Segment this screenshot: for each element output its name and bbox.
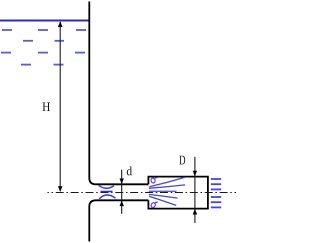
eddy curl top [150,178,157,184]
H arrowhead bottom [58,186,63,192]
jet lower boundary arc [99,195,115,199]
label d [127,167,132,176]
label H [43,102,51,111]
H dimension line [59,22,61,191]
outflow dashes [211,179,221,207]
H arrowhead top [58,21,63,27]
tank wall upper with orifice lip [89,2,148,185]
expansion fan line 2 [149,185,185,188]
eddy curl bottom [151,202,158,208]
d arrowhead upper [120,179,124,185]
centerline axis [48,192,237,194]
expansion fan line 1 [150,177,186,187]
D dimension line [194,157,196,223]
jet core line [101,191,113,193]
expansion fan line 3 [149,190,177,192]
expansion fan line 4 [149,194,178,198]
label D [179,156,185,165]
water dash row D [21,64,64,66]
D arrowhead lower [193,209,197,215]
water surface line [0,20,89,22]
expansion fan line 5 [149,196,176,205]
water dash row B [23,40,64,42]
tank wall lower with orifice lip [89,200,148,241]
d arrowhead lower [120,201,124,207]
water dash row A [2,29,86,31]
jet upper boundary arc [99,185,115,188]
mouthpiece tube D [148,177,208,209]
d dimension line [121,170,123,214]
water dash row C [1,52,85,54]
D arrowhead upper [193,171,197,177]
